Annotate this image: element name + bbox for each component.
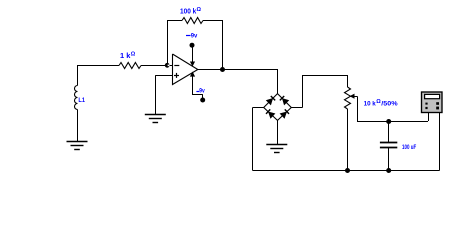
svg-text:9v: 9v [191,33,198,40]
svg-text:100 k: 100 k [180,8,196,15]
svg-text:/50%: /50% [381,101,397,108]
svg-text:Ω: Ω [197,7,202,13]
svg-text:100 uF: 100 uF [402,144,416,151]
svg-text:10 k: 10 k [364,101,376,108]
svg-text:9v: 9v [199,88,205,95]
svg-text:L1: L1 [78,97,85,104]
svg-text:Ω: Ω [131,52,136,58]
svg-text:1 k: 1 k [120,53,131,60]
